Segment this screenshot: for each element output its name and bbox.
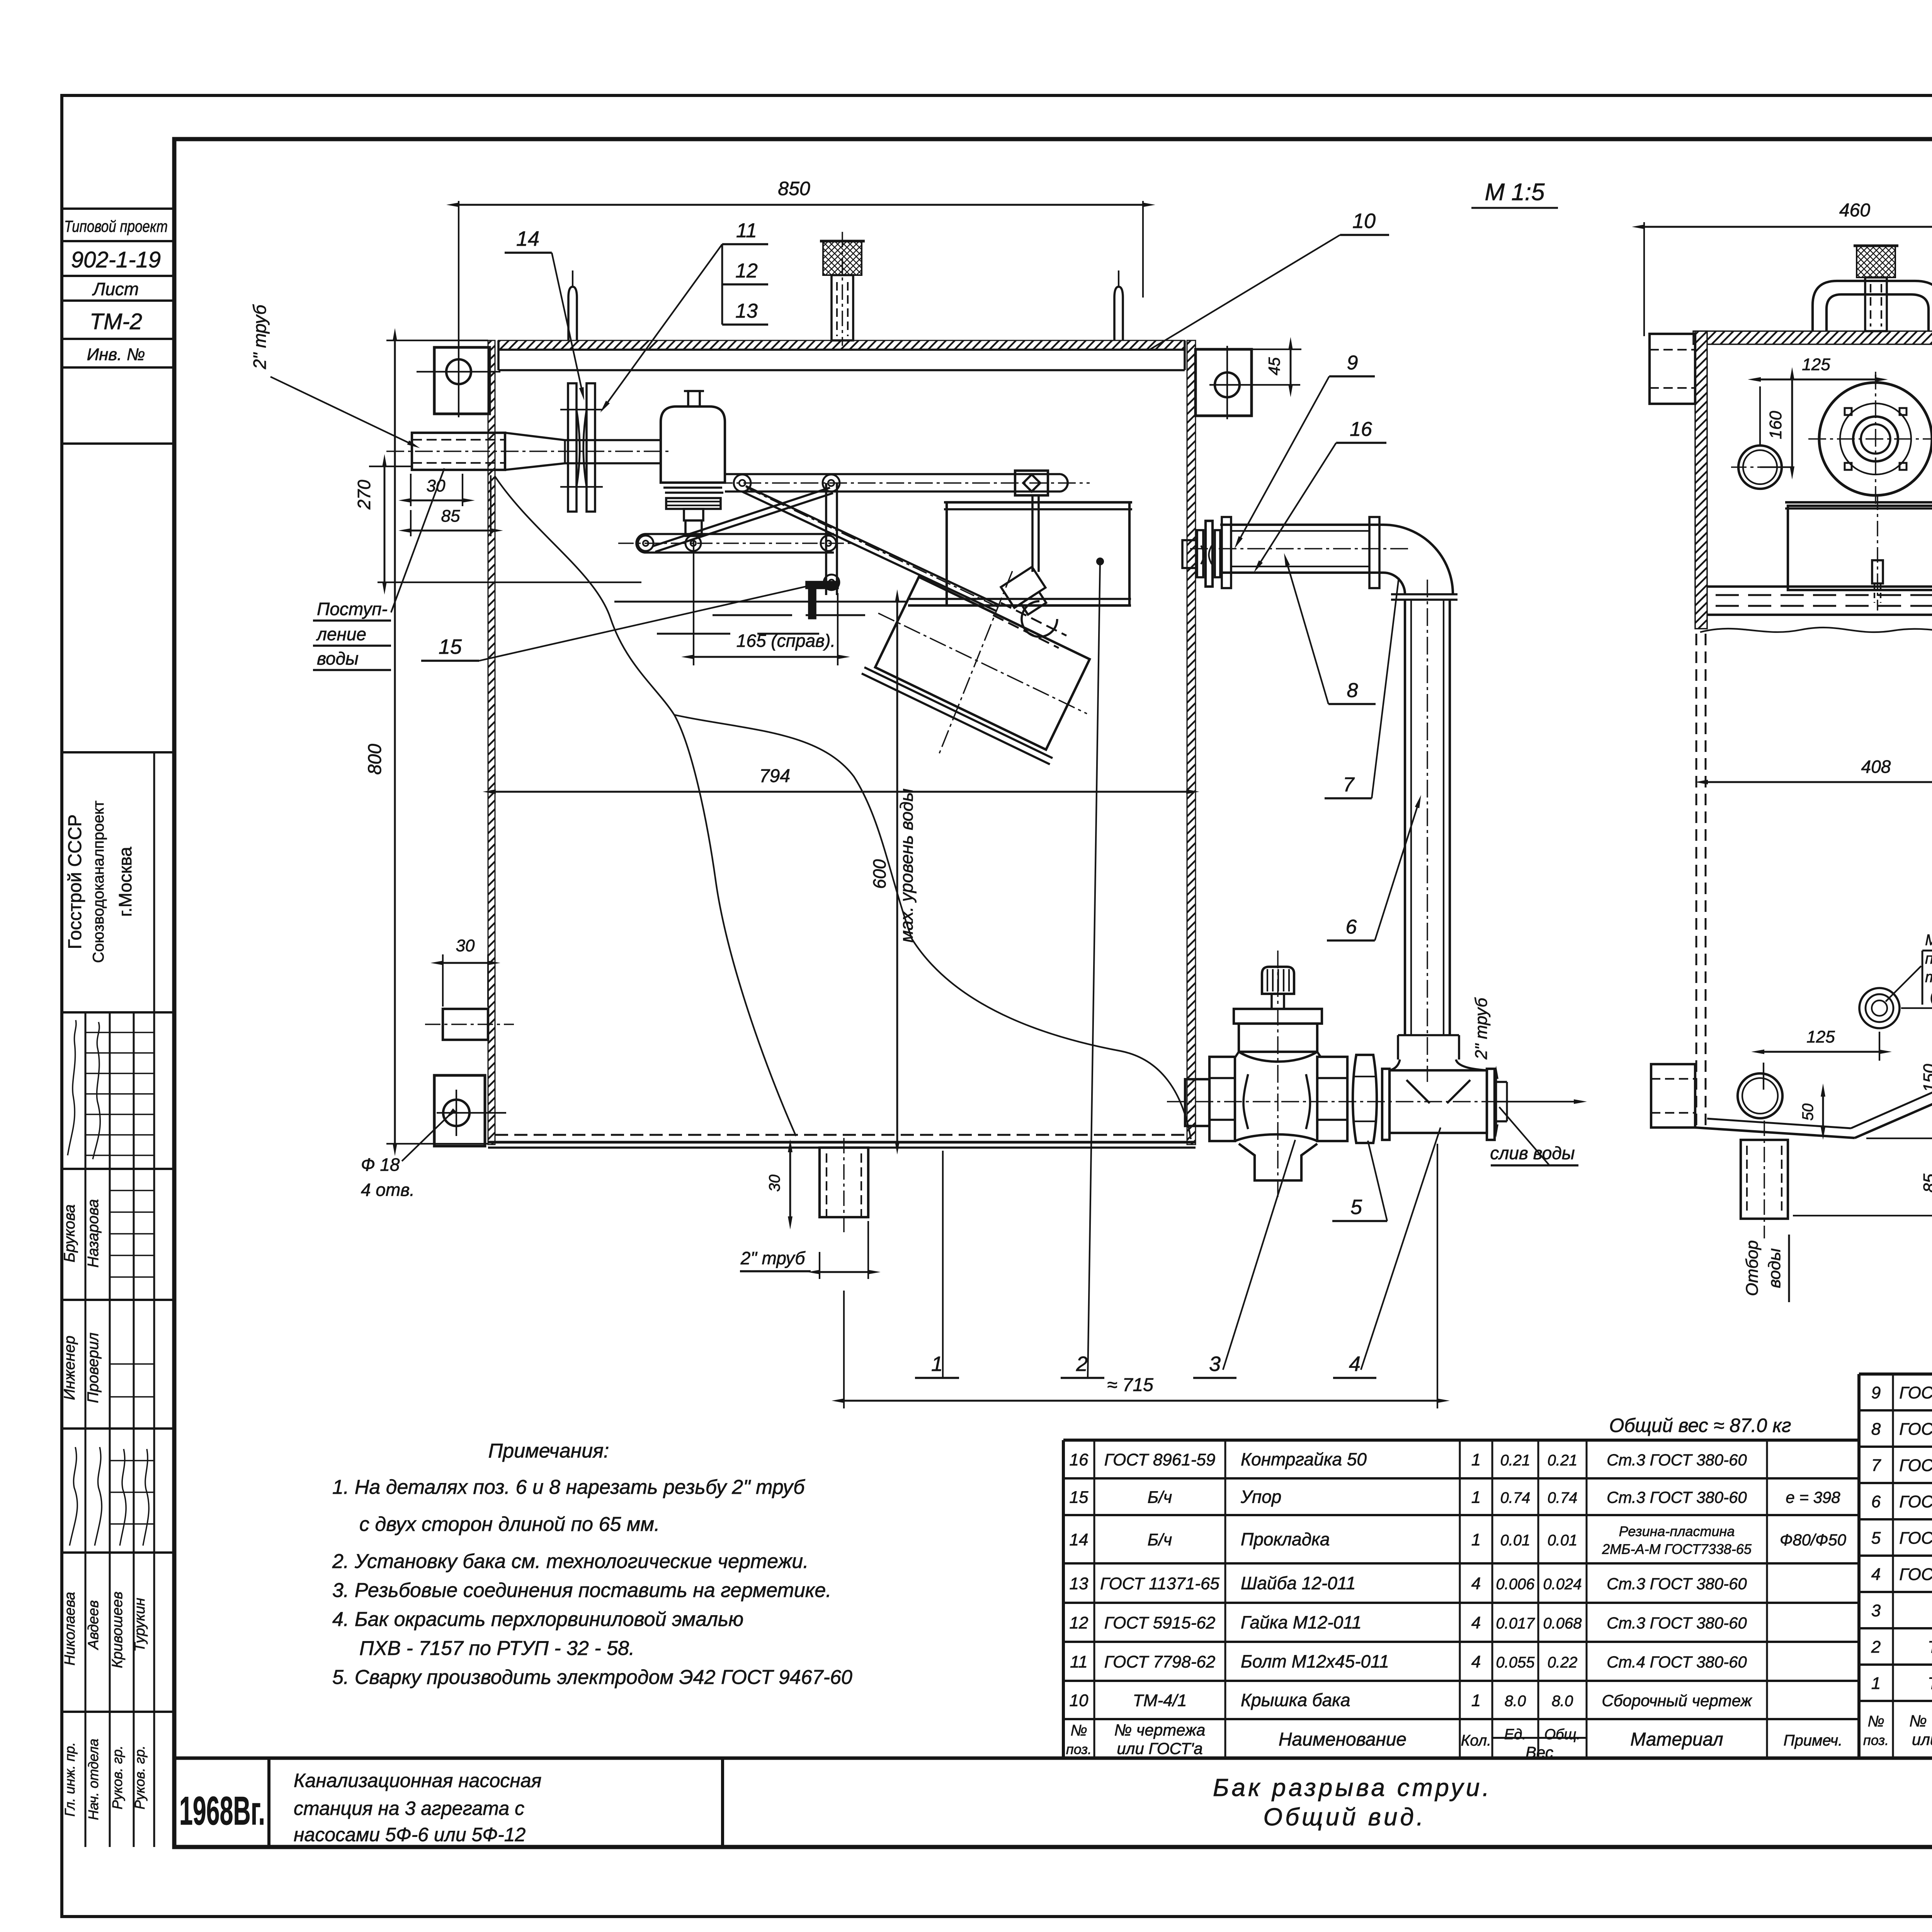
svg-text:12: 12 — [1070, 1614, 1088, 1633]
svg-text:1: 1 — [1471, 1531, 1481, 1549]
side tank left wall — [1695, 331, 1707, 629]
svg-text:1: 1 — [931, 1352, 943, 1376]
svg-text:(Датчик): (Датчик) — [1930, 987, 1932, 1004]
svg-text:ГОСТ 3262-62: ГОСТ 3262-62 — [1899, 1492, 1932, 1511]
svg-text:Б/ч: Б/ч — [1148, 1531, 1172, 1549]
title block — [174, 1758, 1932, 1847]
svg-text:Ст.3 ГОСТ 380-60: Ст.3 ГОСТ 380-60 — [1607, 1488, 1747, 1507]
float container — [947, 502, 1129, 605]
svg-text:2" труб: 2" труб — [740, 1248, 806, 1268]
side breather cap — [1857, 246, 1895, 277]
pivot block with diamond — [1015, 471, 1048, 495]
breather cap on lid — [823, 241, 862, 275]
dim 125 bottom — [1764, 1032, 1879, 1090]
svg-text:ТМ-6/1: ТМ-6/1 — [1928, 1638, 1932, 1656]
dim 794 — [495, 791, 1187, 793]
svg-text:408: 408 — [1861, 757, 1891, 777]
lever lower bar — [636, 534, 834, 553]
svg-text:2: 2 — [1871, 1638, 1881, 1656]
svg-text:6: 6 — [1871, 1492, 1881, 1511]
svg-text:е = 398: е = 398 — [1786, 1488, 1840, 1507]
svg-text:Руков. гр.: Руков. гр. — [132, 1745, 148, 1810]
right parts table (pos 9..1) — [1859, 1374, 1932, 1758]
svg-text:ТМ-4/1: ТМ-4/1 — [1133, 1691, 1187, 1710]
svg-text:Примечания:: Примечания: — [488, 1440, 609, 1462]
svg-text:0.01: 0.01 — [1548, 1532, 1578, 1549]
bottom drain stub (water intake) — [1741, 1140, 1788, 1219]
svg-text:902-1-19: 902-1-19 — [71, 247, 161, 272]
tank bottom — [495, 1134, 1187, 1136]
svg-text:или ГОСТ'а: или ГОСТ'а — [1117, 1740, 1202, 1758]
svg-text:0.024: 0.024 — [1543, 1576, 1582, 1593]
svg-text:станция на 3 агрегата: станция на 3 агрегата с — [294, 1798, 524, 1819]
svg-text:поз.: поз. — [1066, 1742, 1092, 1757]
svg-text:14: 14 — [1070, 1531, 1088, 1549]
freehand stream curve B — [674, 715, 1191, 1139]
svg-text:Материал: Материал — [1630, 1730, 1723, 1750]
tank right wall — [1187, 340, 1196, 1145]
svg-text:4: 4 — [1471, 1653, 1481, 1672]
svg-text:с двух сторон длиной по: с двух сторон длиной по 65 мм. — [359, 1513, 660, 1536]
svg-text:5: 5 — [1350, 1196, 1362, 1219]
svg-text:Общий вид.: Общий вид. — [1263, 1803, 1426, 1831]
svg-text:Ф80/Ф50: Ф80/Ф50 — [1780, 1531, 1847, 1549]
svg-text:2: 2 — [1076, 1352, 1088, 1376]
dim 460 — [1644, 222, 1932, 336]
stop bracket (pos 15) — [806, 582, 838, 618]
svg-text:9: 9 — [1871, 1383, 1881, 1402]
svg-text:125: 125 — [1802, 355, 1830, 374]
svg-text:Контргайка 50: Контргайка 50 — [1241, 1449, 1367, 1469]
svg-text:№ чертежа: № чертежа — [1909, 1712, 1932, 1730]
svg-text:Авдеев: Авдеев — [85, 1600, 102, 1650]
svg-text:ГОСТ 5915-62: ГОСТ 5915-62 — [1104, 1614, 1216, 1633]
svg-text:Поступ-: Поступ- — [317, 599, 388, 619]
svg-text:8.0: 8.0 — [1552, 1693, 1573, 1710]
svg-text:ГОСТ 11371-65: ГОСТ 11371-65 — [1100, 1574, 1219, 1593]
svg-text:8: 8 — [1871, 1420, 1881, 1439]
inlet pipe — [412, 433, 505, 470]
svg-text:воды: воды — [1765, 1248, 1784, 1288]
svg-text:ТМ-2: ТМ-2 — [90, 309, 142, 334]
svg-text:№: № — [1867, 1713, 1884, 1730]
svg-text:ПХВ - 7157 по РТУП - 32: ПХВ - 7157 по РТУП - 32 - 58. — [359, 1637, 634, 1660]
valve washers stack — [666, 498, 721, 509]
svg-text:Общ.: Общ. — [1544, 1726, 1581, 1743]
coupling on wall (pos 9,16) — [1182, 540, 1196, 568]
gate valve (pos 3) — [1277, 951, 1279, 1198]
svg-text:Нач. отдела: Нач. отдела — [85, 1739, 101, 1820]
left parts table (pos 16..10) — [1063, 1440, 1859, 1758]
svg-text:Николаева: Николаева — [62, 1592, 78, 1666]
svg-text:Ед.: Ед. — [1504, 1726, 1526, 1743]
dim 800 — [386, 340, 488, 341]
svg-text:Проверил: Проверил — [85, 1333, 102, 1403]
svg-text:2МБ-А-М ГОСТ7338-65: 2МБ-А-М ГОСТ7338-65 — [1602, 1541, 1752, 1557]
pump mounting flange — [1819, 383, 1932, 495]
svg-text:0.006: 0.006 — [1496, 1576, 1535, 1593]
svg-text:Ст.4 ГОСТ 380-60: Ст.4 ГОСТ 380-60 — [1607, 1653, 1747, 1671]
svg-text:800: 800 — [365, 744, 385, 775]
left wall stub fitting — [443, 1009, 488, 1040]
svg-text:0.068: 0.068 — [1543, 1615, 1582, 1632]
svg-text:1: 1 — [1871, 1674, 1881, 1693]
svg-text:45: 45 — [1265, 357, 1283, 375]
svg-text:12: 12 — [735, 260, 758, 282]
dim 30 stub — [443, 954, 488, 1007]
svg-text:4 отв.: 4 отв. — [361, 1180, 415, 1200]
svg-text:насосами 5Ф-6 или 5Ф-1: насосами 5Ф-6 или 5Ф-12 — [294, 1824, 526, 1845]
svg-text:5: 5 — [1871, 1529, 1881, 1548]
svg-text:14: 14 — [516, 227, 539, 250]
svg-text:11: 11 — [1070, 1653, 1088, 1672]
svg-text:воды: воды — [317, 648, 359, 668]
svg-text:Ст.3 ГОСТ 380-60: Ст.3 ГОСТ 380-60 — [1607, 1451, 1747, 1469]
svg-text:Ст.3 ГОСТ 380-60: Ст.3 ГОСТ 380-60 — [1607, 1575, 1747, 1593]
svg-text:10: 10 — [1070, 1691, 1088, 1710]
svg-text:0.22: 0.22 — [1548, 1654, 1578, 1671]
dim 85 inlet — [410, 510, 412, 536]
svg-text:4: 4 — [1349, 1352, 1361, 1376]
svg-text:460: 460 — [1839, 200, 1870, 221]
svg-text:≈ 715: ≈ 715 — [1107, 1375, 1153, 1395]
bottom-left lug — [402, 1075, 506, 1161]
svg-text:Шайба 12-011: Шайба 12-011 — [1241, 1573, 1356, 1593]
nipple (pos 5) — [1353, 1055, 1377, 1143]
svg-text:Назарова: Назарова — [85, 1199, 102, 1267]
svg-text:1: 1 — [1471, 1488, 1481, 1507]
svg-text:3. Резьбовые соединения: 3. Резьбовые соединения поставить на гер… — [332, 1579, 832, 1602]
svg-text:50: 50 — [1799, 1104, 1816, 1121]
svg-text:16: 16 — [1070, 1451, 1088, 1469]
dim 150 — [1866, 1008, 1932, 1138]
svg-text:Инженер: Инженер — [61, 1336, 78, 1400]
right mounting bracket — [1196, 349, 1252, 416]
rod coupling (tilted) — [1001, 567, 1053, 619]
dim approx 715 — [844, 1144, 1437, 1408]
svg-text:Примеч.: Примеч. — [1784, 1732, 1843, 1749]
dim 270 — [369, 466, 412, 467]
svg-text:4: 4 — [1471, 1574, 1481, 1593]
svg-text:4: 4 — [1471, 1614, 1481, 1633]
tank lid frame — [498, 349, 1185, 351]
svg-text:Союзводоканалпроект: Союзводоканалпроект — [90, 801, 107, 963]
svg-text:Брукова: Брукова — [61, 1204, 78, 1262]
svg-text:11: 11 — [736, 219, 757, 242]
svg-text:270: 270 — [354, 480, 374, 510]
pipe 6 vertical — [1404, 600, 1406, 1035]
svg-text:1. На деталях поз. 6 и: 1. На деталях поз. 6 и 8 нарезать резьбу… — [332, 1476, 805, 1498]
dim 125 top — [1760, 375, 1876, 444]
pipe 8 horizontal — [1220, 524, 1383, 526]
breather bracket — [1813, 281, 1932, 331]
left mounting bracket — [434, 347, 490, 414]
svg-text:Кривошеев: Кривошеев — [109, 1592, 126, 1668]
svg-text:ГОСТ 8948-59: ГОСТ 8948-59 — [1899, 1565, 1932, 1584]
pipe 6 bottom socket — [1398, 1034, 1459, 1036]
svg-text:Общий вес ≈ 87.0 кг: Общий вес ≈ 87.0 кг — [1609, 1415, 1791, 1436]
tee (pos 4) — [1389, 1060, 1487, 1070]
svg-text:ГОСТ 3262-62: ГОСТ 3262-62 — [1899, 1420, 1932, 1439]
svg-text:М 27х1.5 место: М 27х1.5 место — [1925, 932, 1932, 949]
svg-text:8.0: 8.0 — [1505, 1693, 1526, 1710]
dim 1102 — [1793, 270, 1932, 1216]
svg-text:Руков. гр.: Руков. гр. — [109, 1745, 125, 1810]
svg-text:теля уровня: теля уровня — [1925, 969, 1932, 986]
svg-text:4: 4 — [1871, 1565, 1881, 1584]
svg-text:г.Москва: г.Москва — [115, 847, 135, 917]
svg-text:ГОСТ 8958-59: ГОСТ 8958-59 — [1899, 1529, 1932, 1548]
lever upper bar — [725, 473, 1061, 475]
svg-text:150: 150 — [1920, 1064, 1932, 1092]
svg-text:Б/ч: Б/ч — [1148, 1488, 1172, 1507]
svg-text:№ чертежа: № чертежа — [1114, 1721, 1206, 1739]
svg-text:160: 160 — [1766, 411, 1785, 439]
svg-text:3: 3 — [1209, 1352, 1221, 1376]
svg-text:0.01: 0.01 — [1500, 1532, 1531, 1549]
bottom center leg — [790, 1138, 868, 1235]
dim 30 inlet — [410, 474, 412, 506]
svg-text:Болт М12х45-011: Болт М12х45-011 — [1241, 1651, 1389, 1672]
svg-text:4. Бак окрасить перхло: 4. Бак окрасить перхлорвиниловой эмалью — [332, 1608, 743, 1631]
side tank top band — [1693, 331, 1932, 344]
lid studs — [568, 287, 577, 340]
svg-text:85: 85 — [1920, 1173, 1932, 1192]
svg-text:0.21: 0.21 — [1500, 1452, 1531, 1469]
svg-text:ГОСТ 8961-59: ГОСТ 8961-59 — [1104, 1451, 1216, 1469]
svg-text:Кол.: Кол. — [1461, 1732, 1492, 1749]
svg-text:1: 1 — [1471, 1691, 1481, 1710]
svg-text:30: 30 — [766, 1175, 783, 1192]
svg-text:Отбор: Отбор — [1743, 1240, 1762, 1296]
top-left stub pipe — [1650, 334, 1695, 404]
svg-text:16: 16 — [1350, 418, 1372, 440]
svg-text:13: 13 — [1070, 1574, 1088, 1593]
svg-text:Ф 18: Ф 18 — [361, 1155, 400, 1175]
diagonal links — [746, 486, 1001, 606]
svg-text:85: 85 — [441, 507, 460, 526]
svg-text:15: 15 — [1070, 1488, 1088, 1507]
svg-text:Сборочный чертеж: Сборочный чертеж — [1602, 1692, 1752, 1710]
wavy break line — [1700, 628, 1932, 633]
svg-text:Инв. №: Инв. № — [87, 345, 145, 364]
svg-text:Гайка М12-011: Гайка М12-011 — [1241, 1612, 1362, 1633]
svg-text:5. Сварку производить: 5. Сварку производить электродом Э42 ГОС… — [332, 1666, 852, 1689]
svg-text:Госстрой СССР: Госстрой СССР — [65, 814, 85, 949]
svg-text:мах. уровень воды: мах. уровень воды — [896, 789, 917, 943]
svg-text:Лист: Лист — [92, 279, 139, 299]
svg-text:2. Установку бака см. т: 2. Установку бака см. технологические че… — [332, 1550, 809, 1573]
svg-text:2" труб: 2" труб — [250, 304, 270, 370]
svg-text:Резина-пластина: Резина-пластина — [1619, 1524, 1735, 1539]
water level lines — [614, 601, 908, 603]
elbow (pos 7) — [1383, 525, 1453, 594]
svg-text:0.055: 0.055 — [1496, 1654, 1535, 1671]
svg-text:7: 7 — [1343, 774, 1355, 796]
svg-text:ление: ление — [316, 624, 366, 644]
svg-text:или ГОСТ'а: или ГОСТ'а — [1912, 1730, 1932, 1748]
svg-text:2" труб: 2" труб — [1472, 997, 1491, 1060]
svg-text:165 (справ).: 165 (справ). — [736, 631, 835, 651]
svg-text:ТМ-3/1: ТМ-3/1 — [1928, 1674, 1932, 1693]
svg-text:0.21: 0.21 — [1548, 1452, 1578, 1469]
svg-text:М 1:5: М 1:5 — [1485, 179, 1545, 206]
svg-text:№: № — [1070, 1722, 1087, 1739]
svg-text:600: 600 — [869, 859, 889, 889]
level sensor boss — [1859, 988, 1900, 1028]
svg-text:30: 30 — [456, 936, 475, 955]
svg-text:Канализационная насосная: Канализационная насосная — [294, 1770, 541, 1791]
signatures (squiggles) — [68, 1020, 76, 1155]
float valve body (pos 11) — [661, 406, 725, 483]
svg-text:Ст.3 ГОСТ 380-60: Ст.3 ГОСТ 380-60 — [1607, 1614, 1747, 1632]
dim 600 + max level — [896, 602, 898, 1142]
svg-text:15: 15 — [439, 635, 462, 658]
float rod — [1031, 495, 1034, 572]
svg-text:8: 8 — [1347, 679, 1358, 702]
svg-text:ГОСТ 8946-59: ГОСТ 8946-59 — [1899, 1456, 1932, 1475]
angle support band — [1707, 585, 1932, 588]
svg-text:1968Вг.: 1968Вг. — [179, 1789, 265, 1833]
side float chamber — [1788, 506, 1932, 590]
svg-text:Бак разрыва струи.: Бак разрыва струи. — [1213, 1774, 1492, 1801]
side outlet hole — [1738, 1073, 1782, 1118]
dim 408 — [1707, 781, 1932, 783]
svg-text:7: 7 — [1871, 1456, 1881, 1475]
tank lid hatched band — [498, 340, 1185, 350]
tank left wall — [488, 340, 495, 1145]
svg-text:10: 10 — [1352, 209, 1376, 233]
freehand stream curve A — [495, 476, 796, 1136]
left margin stamp boxes — [62, 207, 174, 210]
left strip column lines — [153, 752, 155, 1847]
svg-text:850: 850 — [778, 178, 810, 199]
svg-text:6: 6 — [1346, 916, 1357, 938]
svg-text:0.74: 0.74 — [1500, 1490, 1531, 1507]
vertical link — [825, 483, 827, 595]
svg-text:125: 125 — [1806, 1027, 1835, 1046]
svg-text:поз.: поз. — [1863, 1732, 1889, 1748]
hidden walls below break — [1696, 634, 1697, 1128]
pulley (pos 14) — [568, 383, 577, 512]
svg-text:794: 794 — [759, 766, 790, 786]
svg-text:Наименование: Наименование — [1279, 1730, 1406, 1750]
dim 160 — [1760, 379, 1793, 467]
svg-text:ГОСТ 8954-59: ГОСТ 8954-59 — [1899, 1383, 1932, 1402]
dim 850 — [458, 201, 459, 345]
svg-text:0.017: 0.017 — [1496, 1615, 1535, 1632]
sloped bottom — [1695, 1128, 1855, 1138]
svg-text:Упор: Упор — [1240, 1487, 1281, 1507]
side small hole — [1738, 446, 1782, 489]
tilted bucket — [875, 577, 1090, 750]
svg-text:Турукин: Турукин — [132, 1598, 148, 1652]
svg-text:Типовой проект: Типовой проект — [64, 217, 168, 235]
svg-text:3: 3 — [1871, 1601, 1881, 1620]
bottom-left stub pipe — [1651, 1064, 1695, 1128]
dim 45 right bracket — [1252, 349, 1301, 385]
svg-text:9: 9 — [1347, 352, 1358, 374]
svg-text:Гл. инж. пр.: Гл. инж. пр. — [62, 1742, 78, 1817]
svg-text:ГОСТ 7798-62: ГОСТ 7798-62 — [1104, 1653, 1216, 1672]
svg-text:0.74: 0.74 — [1548, 1490, 1578, 1507]
svg-text:Крышка бака: Крышка бака — [1241, 1690, 1350, 1710]
svg-text:присоед. указа-: присоед. указа- — [1925, 950, 1932, 967]
svg-text:1: 1 — [1471, 1451, 1481, 1469]
svg-text:13: 13 — [735, 300, 758, 322]
svg-text:Прокладка: Прокладка — [1241, 1529, 1330, 1549]
